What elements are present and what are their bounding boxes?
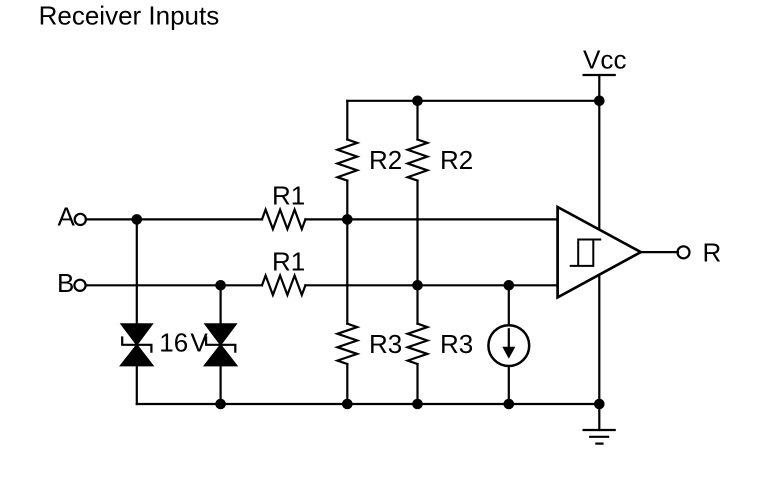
zener diode pair (right) xyxy=(205,324,236,365)
Vcc power symbol xyxy=(583,44,627,101)
wire right zener branch xyxy=(220,285,222,404)
node B/zener xyxy=(215,280,226,291)
node bottom/current-source xyxy=(504,399,515,410)
node bottom/left-rail xyxy=(342,399,353,410)
resistor R1 (top) xyxy=(262,210,305,230)
svg-text:A: A xyxy=(58,202,76,232)
resistor R1 (bottom) xyxy=(262,276,305,296)
current source I xyxy=(488,325,529,366)
node B/right-rail xyxy=(412,280,423,291)
node bottom/right-rail xyxy=(412,399,423,410)
svg-text:R1: R1 xyxy=(272,181,305,211)
wire B line xyxy=(86,284,558,286)
wire Vcc rail vertical to ground xyxy=(598,101,600,404)
node B/current-source xyxy=(504,280,515,291)
wire bottom rail xyxy=(137,403,600,405)
node A/zener xyxy=(132,214,143,225)
node Vcc/top-rail xyxy=(594,96,605,107)
svg-text:Vcc: Vcc xyxy=(583,44,627,74)
svg-text:R: R xyxy=(703,238,722,268)
zener diode pair (left, 16V) xyxy=(121,324,152,365)
svg-text:R3: R3 xyxy=(440,329,473,359)
hysteresis symbol xyxy=(571,240,601,266)
wire left rail vertical xyxy=(346,101,348,404)
resistor R3 (right) xyxy=(408,324,428,364)
svg-text:R2: R2 xyxy=(369,145,402,175)
wire A line xyxy=(86,218,558,220)
svg-text:R2: R2 xyxy=(440,145,473,175)
resistor R2 (right) xyxy=(408,140,428,181)
op-amp U1 (Schmitt-trigger comparator) xyxy=(558,207,641,297)
wire left zener branch xyxy=(136,219,138,404)
node top-rail/right-rail xyxy=(412,96,423,107)
wire right rail vertical xyxy=(416,101,418,404)
node bottom/zener-right xyxy=(215,399,226,410)
wire top rail xyxy=(347,100,599,102)
svg-text:B: B xyxy=(57,268,74,298)
node A/left-rail xyxy=(342,214,353,225)
wire current source branch xyxy=(508,285,510,404)
output terminal R xyxy=(678,246,690,258)
resistor R3 (left) xyxy=(337,324,357,364)
ground xyxy=(584,404,615,444)
svg-text:16 V: 16 V xyxy=(159,328,208,358)
svg-text:R3: R3 xyxy=(369,329,402,359)
svg-text:R1: R1 xyxy=(272,247,305,277)
node bottom/ground xyxy=(594,399,605,410)
resistor R2 (left) xyxy=(337,140,357,181)
wire output xyxy=(641,251,678,253)
svg-text:Receiver Inputs: Receiver Inputs xyxy=(39,1,220,31)
